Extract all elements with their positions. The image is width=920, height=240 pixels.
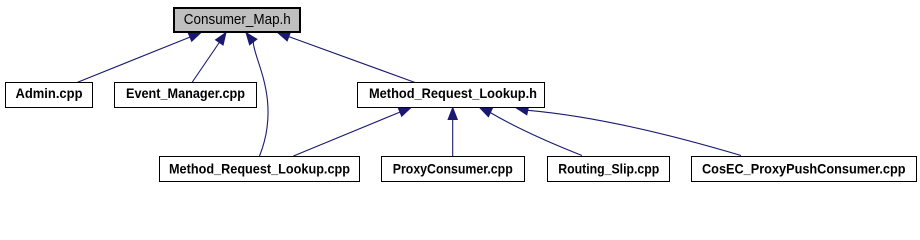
svg-text:Method_Request_Lookup.cpp: Method_Request_Lookup.cpp xyxy=(169,161,350,177)
node Method_Request_Lookup.cpp xyxy=(160,157,360,182)
node Routing_Slip.cpp xyxy=(548,157,670,182)
node Event_Manager.cpp xyxy=(115,83,257,108)
edge ProxyConsumer.cpp -> Method_Request_Lookup.h xyxy=(448,108,457,157)
edge CosEC_ProxyPushConsumer.cpp -> Method_Request_Lookup.h xyxy=(516,106,741,156)
edge Admin.cpp -> Consumer_Map.h xyxy=(77,33,201,83)
svg-text:Event_Manager.cpp: Event_Manager.cpp xyxy=(126,85,245,101)
svg-text:ProxyConsumer.cpp: ProxyConsumer.cpp xyxy=(393,161,513,177)
svg-text:Method_Request_Lookup.h: Method_Request_Lookup.h xyxy=(369,85,537,101)
svg-text:Routing_Slip.cpp: Routing_Slip.cpp xyxy=(558,161,659,177)
svg-text:Consumer_Map.h: Consumer_Map.h xyxy=(184,11,291,28)
node Consumer_Map.h xyxy=(174,8,300,32)
node ProxyConsumer.cpp xyxy=(382,157,525,182)
edge Event_Manager.cpp -> Consumer_Map.h xyxy=(192,33,226,83)
edge Method_Request_Lookup.h -> Consumer_Map.h xyxy=(278,32,416,82)
edge Method_Request_Lookup.cpp -> Method_Request_Lookup.h xyxy=(294,108,412,157)
edge Method_Request_Lookup.cpp -> Consumer_Map.h xyxy=(246,33,268,157)
node Admin.cpp xyxy=(6,83,93,108)
edge Routing_Slip.cpp -> Method_Request_Lookup.h xyxy=(480,108,583,156)
node Method_Request_Lookup.h xyxy=(358,83,545,108)
svg-text:CosEC_ProxyPushConsumer.cpp: CosEC_ProxyPushConsumer.cpp xyxy=(702,161,906,177)
svg-text:Admin.cpp: Admin.cpp xyxy=(16,85,83,101)
node CosEC_ProxyPushConsumer.cpp xyxy=(692,157,917,182)
